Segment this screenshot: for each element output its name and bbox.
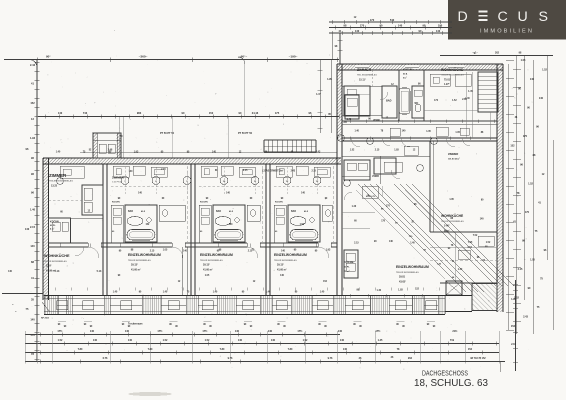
- svg-text:TEIL BODENBELAG: TEIL BODENBELAG: [357, 74, 377, 77]
- svg-text:NF 26/2: NF 26/2: [41, 318, 50, 320]
- svg-text:152: 152: [209, 111, 214, 115]
- svg-text:175⁵: 175⁵: [375, 330, 381, 333]
- svg-text:170: 170: [370, 18, 375, 22]
- label wohnkueche u0: [44, 253, 70, 272]
- svg-text:140: 140: [235, 330, 240, 333]
- svg-text:140: 140: [398, 23, 403, 27]
- svg-text:WC: WC: [415, 103, 419, 105]
- unit 0 fixtures: [49, 166, 104, 273]
- svg-text:1.40: 1.40: [354, 129, 359, 132]
- svg-text:EINZELWOHNRAUM: EINZELWOHNRAUM: [396, 265, 429, 269]
- svg-text:15.11²: 15.11²: [359, 77, 366, 81]
- svg-text:1.40: 1.40: [320, 291, 325, 294]
- connector verticals: [119, 117, 228, 158]
- svg-text:140: 140: [128, 339, 133, 342]
- svg-text:BAD: BAD: [128, 210, 133, 213]
- label kueche ub: [403, 67, 412, 80]
- svg-text:AB: AB: [344, 121, 348, 124]
- svg-text:29.13²: 29.13²: [203, 263, 210, 267]
- corridor wall: [49, 242, 338, 258]
- svg-text:140: 140: [355, 29, 360, 33]
- svg-text:101.80 26m²: 101.80 26m²: [448, 158, 460, 161]
- svg-text:29.13²: 29.13²: [131, 263, 138, 267]
- svg-text:1.05: 1.05: [521, 59, 526, 62]
- svg-text:ZIMMER: ZIMMER: [357, 68, 372, 72]
- upper-right dim vertical: [332, 33, 343, 64]
- svg-text:1.40: 1.40: [30, 207, 36, 211]
- svg-text:2·60²: 2·60²: [444, 224, 450, 228]
- logo box: [448, 0, 566, 40]
- svg-text:1.52: 1.52: [300, 224, 305, 226]
- svg-text:140: 140: [93, 339, 98, 342]
- label einzelwohnraum right: [396, 265, 429, 283]
- svg-text:302: 302: [495, 52, 500, 55]
- svg-text:983: 983: [137, 111, 142, 115]
- svg-text:43.63²: 43.63²: [399, 279, 406, 283]
- window sill dims: [58, 322, 436, 329]
- label kochn u0: [50, 221, 59, 231]
- upper block bottom wall: [342, 138, 497, 141]
- svg-text:152: 152: [510, 145, 515, 148]
- svg-text:ZIMMER: ZIMMER: [448, 152, 458, 156]
- svg-text:BAD: BAD: [386, 100, 392, 103]
- label einzelwohnraum 3: [274, 253, 307, 271]
- svg-text:1.40: 1.40: [347, 118, 352, 121]
- svg-text:1.40: 1.40: [163, 291, 168, 294]
- x-box: [446, 281, 462, 295]
- svg-text:WOHNKÜCHE: WOHNKÜCHE: [44, 253, 70, 258]
- svg-text:~g1~: ~g1~: [472, 52, 478, 55]
- top dim right segment: [440, 55, 553, 57]
- svg-text:TEILER BODENBELAG: TEILER BODENBELAG: [441, 220, 464, 223]
- svg-text:TEILER BODENBELAG: TEILER BODENBELAG: [44, 260, 67, 263]
- svg-text:1.45: 1.45: [378, 339, 383, 342]
- svg-text:1.05: 1.05: [163, 250, 168, 252]
- right section walls: [342, 141, 497, 283]
- svg-text:140: 140: [268, 330, 273, 333]
- svg-text:TEILER BODENBELAG: TEILER BODENBELAG: [200, 259, 223, 262]
- svg-text:1.40: 1.40: [113, 291, 118, 294]
- interior dim numbers: [55, 243, 439, 293]
- svg-text:7.05: 7.05: [468, 242, 473, 244]
- top dimension line: [4, 59, 339, 61]
- svg-text:216⁵: 216⁵: [452, 330, 458, 333]
- svg-text:170: 170: [523, 135, 528, 138]
- svg-text:VORR.: VORR.: [373, 120, 381, 122]
- svg-text:743: 743: [83, 111, 88, 115]
- svg-text:41.60 m²: 41.60 m²: [203, 267, 213, 271]
- svg-text:Trockenraum: Trockenraum: [128, 324, 142, 326]
- svg-text:41.99 m²: 41.99 m²: [46, 268, 56, 272]
- svg-text:140: 140: [340, 339, 345, 342]
- svg-text:PT 50 PT 50: PT 50 PT 50: [238, 132, 253, 135]
- svg-text:175⁵: 175⁵: [297, 330, 303, 333]
- column marker circles: [121, 167, 321, 195]
- svg-text:1.93: 1.93: [134, 152, 139, 154]
- label zimmer u1: [112, 176, 125, 184]
- svg-text:2.15: 2.15: [354, 242, 359, 244]
- svg-text:2.43: 2.43: [523, 316, 528, 319]
- svg-text:1.05: 1.05: [449, 199, 454, 201]
- junction stair ladder: [264, 140, 316, 152]
- svg-text:1.93: 1.93: [398, 290, 403, 292]
- label zimmer ub: [357, 68, 377, 81]
- svg-text:KOCHN: KOCHN: [200, 202, 208, 204]
- svg-text:29.81: 29.81: [399, 276, 406, 279]
- label wohnkueche ub: [441, 68, 464, 86]
- svg-text:~90°~: ~90°~: [239, 55, 247, 59]
- svg-text:7.80: 7.80: [288, 348, 293, 351]
- svg-text:1.52: 1.52: [58, 339, 63, 342]
- svg-text:1.40: 1.40: [458, 268, 463, 271]
- svg-text:1.05: 1.05: [205, 275, 210, 277]
- svg-text:2.43: 2.43: [316, 151, 321, 154]
- svg-text:41.60 m²: 41.60 m²: [131, 267, 141, 271]
- svg-text:EINZELWOHNRAUM: EINZELWOHNRAUM: [200, 253, 233, 257]
- apartment unit 3 fixtures: [274, 166, 333, 283]
- svg-text:75 m²: 75 m²: [344, 270, 350, 273]
- left dim ticks: [35, 62, 40, 359]
- svg-text:KOPL.PL: KOPL.PL: [366, 196, 376, 198]
- svg-text:KOCHN: KOCHN: [50, 221, 59, 224]
- terrace hatch corner: [472, 284, 497, 311]
- svg-text:TEILER BODENBELAG: TEILER BODENBELAG: [441, 74, 464, 77]
- bottom smudge: [128, 392, 172, 396]
- roof protrusion top-left: [93, 133, 121, 158]
- svg-text:4 m²: 4 m²: [50, 228, 55, 231]
- svg-text:PT 50 PT 50: PT 50 PT 50: [160, 132, 175, 135]
- svg-text:190: 190: [438, 23, 443, 27]
- staircase diagonals: [356, 184, 514, 292]
- upper block interior: [338, 65, 498, 147]
- svg-text:KOCHN: KOCHN: [275, 202, 283, 204]
- svg-text:18, SCHULG. 63: 18, SCHULG. 63: [414, 377, 488, 389]
- svg-text:140: 140: [125, 330, 130, 333]
- svg-text:2.15: 2.15: [150, 251, 155, 253]
- angle arc at left datum: [30, 60, 37, 68]
- svg-text:~360~: ~360~: [139, 55, 148, 59]
- svg-text:1.40: 1.40: [352, 205, 357, 208]
- left margin marks: [2, 270, 50, 320]
- svg-text:TEILER BODENBELAG: TEILER BODENBELAG: [49, 180, 73, 183]
- svg-text:75.01²: 75.01²: [444, 77, 451, 81]
- svg-text:175⁵: 175⁵: [202, 330, 208, 333]
- right dim columns: [506, 56, 553, 335]
- svg-text:1.05: 1.05: [530, 259, 535, 262]
- bottom window band: [44, 296, 445, 315]
- svg-text:9m²: 9m²: [403, 77, 407, 80]
- svg-text:TEILER BODENBELAG: TEILER BODENBELAG: [396, 271, 419, 274]
- second top dim line: [38, 116, 339, 118]
- texts above top wall: [56, 151, 321, 154]
- svg-text:1.97²: 1.97²: [444, 82, 450, 86]
- svg-text:D: D: [458, 9, 468, 25]
- bottom dimension lines: [25, 330, 505, 372]
- svg-text:⌐: ⌐: [15, 309, 17, 313]
- svg-text:1.51 PT.50: 1.51 PT.50: [112, 182, 123, 184]
- svg-text:2.15: 2.15: [518, 268, 523, 271]
- scan noise speckle: [30, 55, 533, 370]
- svg-text:140: 140: [90, 330, 95, 333]
- svg-text:7.80: 7.80: [148, 348, 153, 351]
- svg-text:140: 140: [338, 330, 343, 333]
- svg-text:140: 140: [436, 29, 441, 33]
- svg-text:24.16: 24.16: [252, 111, 259, 115]
- svg-text:2.15: 2.15: [311, 170, 316, 172]
- svg-text:WOHNKÜCHE: WOHNKÜCHE: [441, 68, 464, 72]
- svg-text:152: 152: [468, 348, 473, 351]
- label wohnkueche right: [441, 214, 464, 232]
- svg-text:140: 140: [539, 97, 544, 100]
- svg-text:2.15: 2.15: [375, 149, 380, 151]
- svg-text:540: 540: [390, 18, 395, 22]
- left dim numbers: [25, 63, 36, 356]
- svg-text:U: U: [518, 9, 528, 25]
- svg-text:2.15: 2.15: [243, 170, 248, 172]
- svg-text:170: 170: [525, 211, 530, 214]
- svg-text:2.10: 2.10: [511, 343, 516, 346]
- left exterior wall: [43, 158, 49, 300]
- svg-text:140: 140: [530, 78, 535, 81]
- svg-text:2.85: 2.85: [462, 98, 467, 101]
- label einzelwohnraum 1: [128, 253, 161, 271]
- partition wall 2: [191, 164, 195, 295]
- label zimmer u0: [49, 173, 73, 187]
- svg-text:⌐: ⌐: [12, 302, 14, 306]
- svg-text:60 A: 60 A: [403, 73, 408, 76]
- svg-text:EINZELWOHNRAUM: EINZELWOHNRAUM: [128, 253, 161, 257]
- svg-text:1.40: 1.40: [377, 289, 382, 292]
- svg-text:13.23: 13.23: [51, 184, 58, 187]
- svg-text:140: 140: [343, 348, 348, 351]
- svg-text:1.45: 1.45: [468, 90, 473, 93]
- svg-text:2.43: 2.43: [291, 170, 296, 173]
- svg-text:1.52: 1.52: [163, 339, 168, 342]
- right exterior wall: [497, 64, 503, 312]
- svg-text:1.95: 1.95: [511, 298, 516, 301]
- logo E bars: [478, 11, 487, 21]
- svg-text:7.80: 7.80: [220, 348, 225, 351]
- svg-text:1.52: 1.52: [205, 339, 210, 342]
- svg-text:1.40: 1.40: [213, 291, 218, 294]
- svg-text:1.40: 1.40: [410, 242, 415, 245]
- right angle arc mid: [238, 57, 245, 64]
- svg-text:IMMOBILIEN: IMMOBILIEN: [480, 29, 534, 35]
- svg-text:140: 140: [25, 227, 30, 231]
- svg-text:TEILER BODENBELAG: TEILER BODENBELAG: [274, 259, 297, 262]
- svg-text:175⁵: 175⁵: [57, 330, 63, 333]
- svg-text:175: 175: [275, 111, 280, 115]
- partition wall 1: [103, 164, 107, 295]
- svg-text:7.52: 7.52: [473, 235, 478, 237]
- svg-text:5.13: 5.13: [97, 270, 102, 273]
- svg-text:2.15: 2.15: [248, 251, 253, 253]
- second top dim ticks and numbers: [45, 111, 339, 153]
- svg-text:60 PL: 60 PL: [344, 267, 350, 269]
- svg-text:29.13²: 29.13²: [277, 263, 284, 267]
- svg-text:1.95: 1.95: [327, 78, 332, 81]
- upper block left wall: [337, 64, 342, 141]
- svg-text:1.05: 1.05: [426, 131, 431, 133]
- svg-text:ZIMMER: ZIMMER: [112, 176, 125, 180]
- svg-text:41.60 m²: 41.60 m²: [277, 267, 287, 271]
- svg-text:EINZELWOHNRAUM: EINZELWOHNRAUM: [274, 253, 307, 257]
- svg-text:1.93: 1.93: [394, 150, 399, 152]
- svg-text:KOCHN: KOCHN: [112, 202, 120, 204]
- svg-text:~190~: ~190~: [289, 55, 298, 59]
- small pt labels: [120, 132, 253, 138]
- svg-text:90°: 90°: [46, 55, 51, 59]
- svg-text:140: 140: [58, 111, 63, 115]
- label einzelwohnraum 2: [200, 253, 233, 271]
- svg-text:BAD: BAD: [291, 210, 296, 213]
- svg-text:1.93: 1.93: [326, 250, 331, 252]
- mid vertical dim pair: [316, 60, 332, 134]
- svg-text:TEILER BODENBELAG: TEILER BODENBELAG: [128, 259, 151, 262]
- right section clutter: [182, 146, 497, 297]
- svg-text:1.52: 1.52: [486, 242, 491, 244]
- texts under logo: [472, 52, 522, 55]
- svg-text:1.52: 1.52: [542, 69, 547, 72]
- svg-text:BAD: BAD: [216, 210, 221, 213]
- partition wall right section: [337, 141, 342, 295]
- svg-text:1.52: 1.52: [303, 339, 308, 342]
- svg-text:DACHGESCHOSS: DACHGESCHOSS: [422, 368, 468, 377]
- svg-text:140: 140: [271, 339, 276, 342]
- top dim labels: [37, 28, 337, 62]
- svg-text:170: 170: [30, 333, 35, 337]
- svg-text:7.80: 7.80: [78, 348, 83, 351]
- svg-text:170: 170: [360, 23, 365, 27]
- left dimension line: [36, 60, 38, 362]
- svg-text:1.52: 1.52: [452, 100, 457, 102]
- right section numbers: [451, 235, 491, 271]
- top wall left block: [43, 158, 341, 164]
- right bottom vertical dim: [511, 280, 518, 371]
- svg-text:98 743 78 152: 98 743 78 152: [470, 357, 486, 360]
- svg-text:152: 152: [30, 101, 35, 105]
- svg-text:S: S: [539, 9, 548, 25]
- svg-text:719: 719: [450, 339, 455, 342]
- svg-text:9.76: 9.76: [328, 357, 333, 360]
- label kueche right: [344, 260, 354, 273]
- right bottom wall: [445, 296, 472, 312]
- svg-text:60 PL: 60 PL: [50, 225, 56, 227]
- svg-text:152: 152: [511, 325, 516, 328]
- svg-text:22.0²: 22.0²: [46, 264, 52, 268]
- upper-right dim lines: [329, 16, 452, 35]
- svg-text:2.15: 2.15: [161, 169, 166, 171]
- svg-text:-: -: [114, 28, 115, 32]
- svg-text:1.52: 1.52: [350, 149, 355, 151]
- svg-text:C: C: [498, 9, 508, 25]
- upper block top wall: [337, 64, 503, 70]
- svg-text:6.76: 6.76: [103, 357, 108, 360]
- svg-text:1.47: 1.47: [316, 93, 321, 96]
- svg-text:VORR: VORR: [372, 175, 379, 178]
- svg-text:1.40: 1.40: [56, 151, 61, 154]
- svg-text:175⁵: 175⁵: [157, 330, 163, 333]
- svg-text:KÜCHE: KÜCHE: [344, 260, 354, 264]
- partition wall 3: [266, 164, 270, 295]
- svg-text:2.43: 2.43: [30, 63, 36, 67]
- apartment unit 2 fixtures: [199, 166, 262, 283]
- svg-text:1.93: 1.93: [30, 136, 36, 140]
- svg-text:ZIMMER: ZIMMER: [49, 173, 67, 178]
- svg-text:140: 140: [30, 317, 35, 321]
- svg-text:1.40: 1.40: [266, 291, 271, 294]
- svg-text:1.52: 1.52: [528, 183, 533, 186]
- svg-text:262: 262: [408, 357, 413, 360]
- logo DECUS letters: [458, 9, 548, 25]
- svg-text:9.76: 9.76: [228, 357, 233, 360]
- svg-text:2.15: 2.15: [30, 225, 36, 229]
- apartment unit 1 fixtures: [111, 166, 187, 283]
- svg-text:140: 140: [30, 244, 35, 248]
- svg-text:140: 140: [238, 339, 243, 342]
- svg-text:65m²: 65m²: [444, 228, 450, 232]
